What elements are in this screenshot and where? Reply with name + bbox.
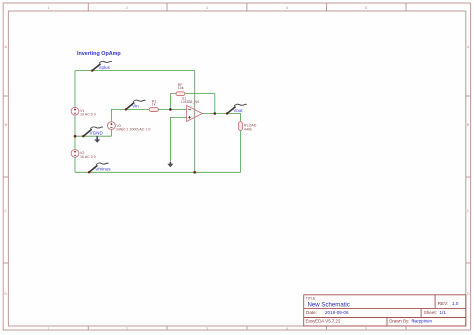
resistor RLOAD (239, 122, 243, 131)
netflag VGND (82, 127, 103, 137)
label RLOAD (244, 124, 257, 132)
wire: V1 to junction (74, 115, 76, 149)
svg-text:A: A (467, 44, 470, 49)
junction node RF/output (214, 112, 217, 115)
svg-text:C: C (4, 208, 7, 213)
wire: top rail Vplus (75, 70, 195, 72)
wire: opamp plus input to ground (170, 117, 186, 163)
netflag Vin (125, 100, 146, 110)
svg-text:1k: 1k (152, 103, 156, 107)
label V3 (116, 124, 150, 131)
resistor RF (176, 92, 185, 96)
junction node V- power / bottom rail (193, 171, 196, 174)
op-amp U1 (187, 106, 203, 122)
junction node R1/RF/opamp input (169, 108, 172, 111)
svg-text:Drawn By:: Drawn By: (389, 319, 409, 324)
wire: left rail V1 top (74, 71, 76, 108)
svg-text:SIN(0 1 1000) AC 1 0: SIN(0 1 1000) AC 1 0 (116, 127, 150, 131)
junction node V1/V2/VGND (74, 135, 77, 138)
wire: V2 bottom (74, 157, 76, 172)
label R1 (152, 99, 157, 106)
svg-text:Sheet:: Sheet: (424, 310, 437, 315)
ground symbol (opamp + input) (167, 162, 173, 167)
svg-text:2018-09-06: 2018-09-06 (325, 310, 349, 315)
voltage source V1 (71, 107, 79, 115)
svg-text:5: 5 (365, 326, 367, 331)
svg-text:5: 5 (365, 5, 367, 10)
svg-text:A: A (4, 44, 7, 49)
svg-text:Vout: Vout (233, 108, 243, 113)
svg-text:3: 3 (206, 5, 208, 10)
netflag Vplus (91, 61, 112, 71)
svg-text:10k: 10k (178, 86, 184, 90)
svg-text:Vminus: Vminus (95, 167, 111, 172)
svg-text:REV:: REV: (438, 301, 449, 306)
netflag Vout (226, 104, 247, 114)
wire: RLOAD bottom (240, 131, 242, 173)
wire: feedback RF loop (170, 94, 176, 110)
svg-text:Vplus: Vplus (98, 65, 110, 70)
svg-text:3: 3 (206, 326, 208, 331)
svg-text:2: 2 (126, 5, 128, 10)
svg-text:4: 4 (286, 5, 289, 10)
wire: R1 to opamp minus input (158, 108, 186, 110)
voltage source V3 (108, 122, 116, 130)
ground symbol (VGND net) (94, 136, 100, 143)
svg-text:EasyEDA V5.7.22: EasyEDA V5.7.22 (306, 319, 341, 324)
title block (304, 295, 466, 326)
svg-text:440k: 440k (244, 128, 252, 132)
label U1 (181, 96, 200, 104)
netflag Vminus (88, 163, 111, 173)
label RF (178, 83, 184, 90)
svg-text:Date:: Date: (306, 310, 317, 315)
svg-text:New Schematic: New Schematic (308, 301, 350, 308)
svg-text:LM358_NS: LM358_NS (181, 100, 200, 104)
svg-text:Inverting OpAmp: Inverting OpAmp (77, 51, 121, 57)
wire: output to RLOAD (202, 114, 240, 122)
resistor R1 (149, 108, 158, 112)
svg-text:D: D (4, 291, 7, 296)
wire: V3 top to Vin (111, 109, 149, 121)
svg-text:D: D (467, 291, 470, 296)
svg-text:VGND: VGND (90, 131, 104, 136)
title block text (306, 296, 449, 323)
svg-text:2: 2 (126, 326, 128, 331)
svg-text:1/1: 1/1 (440, 310, 447, 315)
svg-text:10 AC 0 0: 10 AC 0 0 (80, 155, 96, 159)
svg-text:C: C (467, 208, 470, 213)
svg-text:10 AC 0 0: 10 AC 0 0 (80, 113, 96, 117)
svg-text:B: B (467, 122, 470, 127)
svg-text:1: 1 (47, 5, 49, 10)
wire: V3 bottom (110, 130, 112, 137)
svg-text:Vin: Vin (132, 104, 139, 109)
svg-text:TITLE:: TITLE: (306, 296, 317, 300)
svg-text:fkarppinen: fkarppinen (412, 319, 433, 324)
voltage source V2 (71, 149, 79, 157)
label V2 (80, 151, 96, 159)
svg-text:1.0: 1.0 (452, 301, 459, 306)
svg-text:B: B (4, 122, 7, 127)
label V1 (80, 109, 96, 117)
wire: bottom rail (75, 171, 241, 173)
wire: opamp V+ / V- vertical (194, 71, 196, 173)
wire: VGND horizontal (75, 135, 111, 137)
svg-text:1: 1 (47, 326, 49, 331)
